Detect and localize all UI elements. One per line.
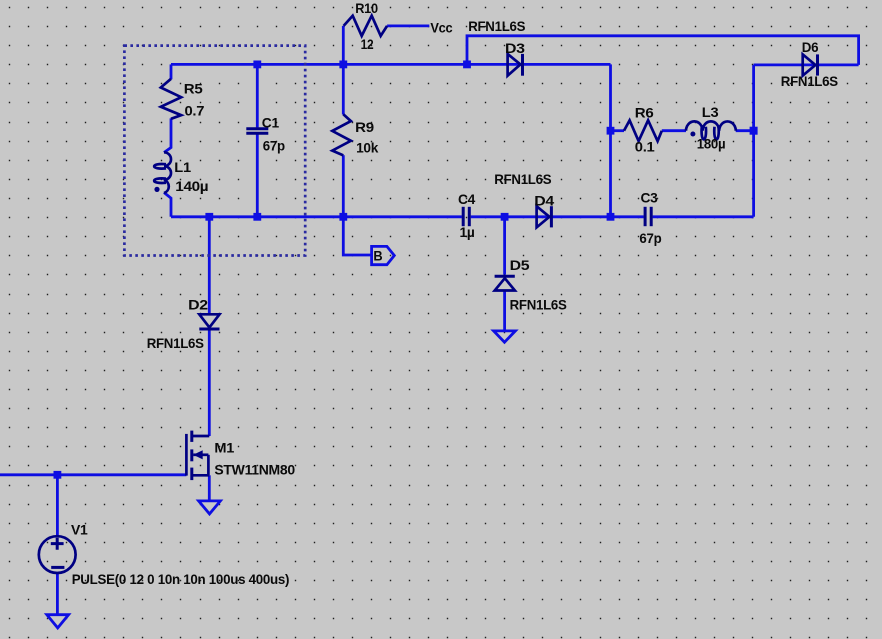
node junction top rail / D3 loop: [463, 61, 471, 69]
capacitor C1: [246, 127, 268, 130]
diode D2 cathode bar: [199, 328, 219, 331]
wire between R6 and L3: [662, 129, 686, 132]
diode D3 cathode bar: [521, 54, 524, 76]
wire below L1 with jog to bottom rail: [164, 193, 171, 217]
node junction gate rail / V1: [54, 471, 62, 479]
wire right vertical from D3 down to bottom rail: [609, 64, 612, 216]
svg-text:C1: C1: [262, 115, 280, 131]
ground below D5: [494, 331, 516, 342]
wire R10 right lead to Vcc: [387, 24, 429, 27]
svg-text:R5: R5: [184, 81, 203, 97]
wire C1 bottom lead: [256, 134, 259, 216]
svg-text:D5: D5: [510, 257, 530, 273]
node junction top rail / R10-R9: [339, 61, 347, 69]
wire vertical from D6 anode down through L3 junction to bottom rail: [752, 65, 755, 217]
svg-text:0.7: 0.7: [185, 103, 205, 119]
MOSFET M1 channel stub body: [190, 449, 193, 461]
inductor L1 loop 2: [154, 178, 166, 183]
wire R6 left lead: [611, 129, 625, 132]
svg-text:1µ: 1µ: [460, 224, 475, 240]
wire between R5 and L1 with jog: [164, 118, 171, 152]
MOSFET M1 gate bar: [185, 434, 188, 476]
wire D2 top lead from bottom rail: [208, 217, 211, 314]
inductor L1 phase dot: [154, 187, 159, 192]
svg-text:Vcc: Vcc: [430, 19, 452, 35]
wire M1 source to ground: [208, 475, 211, 501]
node junction bottom rail / C1: [253, 213, 261, 221]
svg-text:L1: L1: [174, 159, 191, 175]
wire R10 left vertical lead: [342, 26, 345, 65]
wire bottom rail segments: [171, 215, 462, 218]
svg-text:D6: D6: [802, 39, 819, 55]
svg-text:D2: D2: [188, 296, 208, 312]
diode D4 cathode bar: [550, 206, 553, 227]
inductor L3 loop 2: [714, 127, 718, 140]
capacitor C4: [462, 207, 465, 226]
wire L3 right lead: [736, 129, 754, 132]
wire D5 top lead from bottom rail: [503, 217, 506, 275]
MOSFET M1 channel stub drain: [190, 431, 193, 442]
inductor L3 phase dot: [690, 132, 695, 137]
node junction bottom rail / R9-B: [339, 213, 347, 221]
diode D6: [803, 54, 816, 75]
svg-text:140µ: 140µ: [175, 178, 208, 194]
diode D3: [508, 54, 521, 76]
MOSFET M1 drain lead: [192, 435, 210, 438]
inductor L3: [686, 121, 736, 130]
wire R9 top lead: [342, 64, 345, 114]
resistor R10: [344, 16, 388, 36]
MOSFET M1 source lead: [192, 474, 210, 477]
svg-text:D3: D3: [505, 40, 525, 56]
node junction R6 rail left: [607, 127, 615, 135]
svg-text:RFN1L6S: RFN1L6S: [147, 335, 204, 351]
svg-text:12: 12: [361, 36, 374, 52]
diode D4: [537, 206, 550, 227]
inductor L3 loop 1: [702, 127, 706, 140]
node junction bottom rail / D5: [501, 213, 509, 221]
node junction bottom rail / D3 vertical: [607, 213, 615, 221]
node junction bottom rail / D2: [205, 213, 213, 221]
svg-text:0.1: 0.1: [635, 139, 655, 155]
resistor R5: [161, 79, 181, 119]
net flag B (port): [372, 246, 395, 264]
diode D5 cathode bar: [495, 275, 515, 278]
resistor R9: [332, 114, 351, 155]
svg-text:RFN1L6S: RFN1L6S: [781, 73, 838, 89]
svg-text:10k: 10k: [356, 140, 378, 156]
voltage source V1 circle: [39, 536, 76, 573]
svg-text:C3: C3: [641, 190, 659, 206]
wire D6 rail from corner to vertical: [754, 64, 859, 67]
wire top rail from R5 branch to D3 corner: [171, 63, 611, 66]
capacitor C3: [644, 207, 647, 226]
wire left branch above R5: [170, 64, 173, 79]
svg-text:STW11NM80: STW11NM80: [214, 462, 295, 478]
voltage source V1 minus sign: [51, 566, 64, 569]
svg-text:R10: R10: [355, 0, 378, 16]
svg-text:R6: R6: [635, 105, 654, 121]
MOSFET M1 body arrow: [193, 450, 203, 459]
svg-text:67p: 67p: [263, 138, 285, 154]
MOSFET M1 body lead: [193, 453, 208, 456]
wire V1 top lead: [56, 475, 59, 537]
voltage source V1 plus sign: [51, 538, 64, 550]
svg-text:RFN1L6S: RFN1L6S: [494, 171, 551, 187]
ground below V1: [47, 615, 69, 628]
svg-text:R9: R9: [355, 119, 374, 135]
svg-text:180µ: 180µ: [697, 136, 726, 152]
wire C1 top lead: [256, 64, 259, 127]
svg-text:D4: D4: [534, 192, 554, 208]
node junction L3 rail right: [750, 127, 758, 135]
svg-text:V1: V1: [71, 521, 88, 537]
wire D2 bottom lead to M1 drain: [208, 331, 211, 437]
svg-text:M1: M1: [214, 440, 234, 456]
svg-text:PULSE(0 12 0 10n 10n 100us 400: PULSE(0 12 0 10n 10n 100us 400us): [72, 571, 290, 587]
svg-text:B: B: [373, 248, 382, 264]
MOSFET M1 channel stub source: [190, 468, 193, 481]
wire V1 bottom lead to ground: [56, 573, 59, 615]
svg-text:RFN1L6S: RFN1L6S: [468, 18, 525, 34]
inductor L1: [164, 152, 171, 193]
resistor R6: [624, 120, 662, 141]
MOSFET M1 body-source connector: [207, 455, 210, 476]
diode D6 cathode bar: [816, 54, 819, 75]
diode D2 (pointing down): [199, 314, 219, 327]
dotted selection box around R5/L1/C1: [124, 46, 305, 256]
svg-text:RFN1L6S: RFN1L6S: [510, 297, 567, 313]
wire R9 bottom lead to rail: [342, 155, 345, 217]
ground below M1: [199, 501, 221, 514]
svg-text:C4: C4: [458, 191, 476, 207]
inductor L1 loop 1: [154, 164, 166, 169]
svg-text:L3: L3: [702, 104, 719, 120]
wire from rail down to B flag: [343, 217, 371, 255]
wire D5 bottom lead to ground: [503, 291, 506, 332]
wire gate rail from left edge to M1 gate: [0, 473, 186, 476]
wire top-right loop: up from D3 junction, across, down to D6 rail: [467, 36, 859, 65]
node junction top rail / C1: [253, 61, 261, 69]
svg-text:67p: 67p: [639, 230, 661, 246]
